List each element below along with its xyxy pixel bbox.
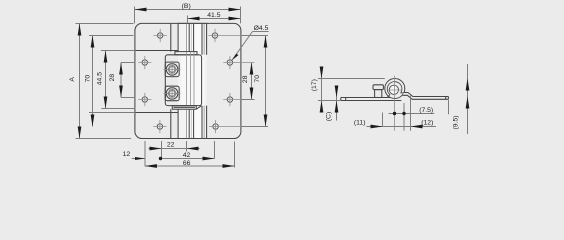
svg-text:28: 28 bbox=[242, 75, 249, 83]
dimension (12) bbox=[411, 96, 449, 131]
screw housing block bbox=[165, 52, 201, 110]
dimension (17) bbox=[311, 67, 385, 113]
svg-text:(9.5): (9.5) bbox=[452, 116, 459, 130]
hinge loop sheet inner arc bbox=[387, 82, 404, 98]
dimension 70 (left) bbox=[84, 36, 133, 127]
hole mid-right upper bbox=[223, 56, 254, 69]
knuckle vertical edges (upper segment) bbox=[171, 24, 207, 55]
hinge loop outer bbox=[385, 79, 405, 99]
svg-text:A: A bbox=[69, 77, 76, 82]
svg-text:Ø4.5: Ø4.5 bbox=[254, 25, 269, 32]
knuckle sleeve light fill bbox=[178, 23, 208, 138]
left leaf (side) bbox=[341, 98, 402, 101]
dimension (C) bbox=[326, 86, 339, 122]
left leaf bottom edge bbox=[89, 112, 178, 114]
svg-text:41.5: 41.5 bbox=[207, 12, 220, 19]
svg-text:42: 42 bbox=[183, 152, 191, 159]
right leaf (side) with jog bbox=[403, 93, 449, 100]
svg-text:66: 66 bbox=[183, 160, 191, 167]
hole bottom-right bbox=[209, 120, 242, 133]
knuckle vertical edges (lower segment) bbox=[171, 106, 207, 138]
screw pads bbox=[165, 62, 179, 101]
front view: wide mounting plate bbox=[135, 23, 241, 138]
dimension 22 (bottom) bbox=[149, 141, 200, 159]
dimension 44.5 (left) bbox=[97, 51, 136, 109]
svg-text:44.5: 44.5 bbox=[97, 72, 104, 85]
hole mid-left lower bbox=[138, 93, 151, 106]
svg-text:(C): (C) bbox=[326, 112, 333, 121]
svg-text:(7.5): (7.5) bbox=[419, 107, 433, 114]
svg-text:(11): (11) bbox=[354, 119, 366, 126]
svg-text:(17): (17) bbox=[311, 79, 318, 91]
dimension 28 (left) bbox=[109, 63, 135, 98]
svg-text:70: 70 bbox=[254, 75, 261, 83]
dimension (7.5) bbox=[389, 103, 435, 131]
dimension 70 (right) bbox=[242, 36, 269, 127]
dimension (11) bbox=[354, 113, 436, 129]
hole top-left bbox=[154, 29, 168, 42]
dimension A (left) bbox=[69, 24, 133, 139]
dimension 28 (right) bbox=[242, 63, 255, 100]
left leaf top edge bbox=[101, 50, 178, 52]
dimension (9.5) bbox=[452, 64, 469, 134]
hole mid-left upper bbox=[138, 56, 151, 69]
dimension 41.5 bbox=[188, 12, 241, 23]
screw 1 bbox=[164, 61, 181, 78]
hole mid-right lower bbox=[223, 93, 254, 106]
svg-text:28: 28 bbox=[109, 74, 116, 82]
svg-text:(B): (B) bbox=[182, 3, 191, 10]
svg-text:12: 12 bbox=[123, 151, 131, 158]
pin centerlines bbox=[388, 76, 402, 131]
hole bottom-left bbox=[153, 120, 166, 133]
hinge pin bbox=[389, 85, 398, 94]
svg-text:70: 70 bbox=[84, 75, 91, 83]
screw 2 bbox=[164, 85, 181, 102]
dimension 66 (bottom) bbox=[145, 142, 235, 168]
dimension 42 (bottom) bbox=[159, 141, 215, 160]
screw boss (side) bbox=[373, 85, 383, 98]
hole top-right bbox=[209, 29, 242, 42]
label diameter 4.5 with leader bbox=[232, 25, 269, 60]
dimension (B) bbox=[135, 3, 241, 23]
svg-text:22: 22 bbox=[167, 142, 175, 149]
dimension 12 (bottom) bbox=[123, 141, 145, 166]
svg-text:(12): (12) bbox=[421, 119, 433, 126]
